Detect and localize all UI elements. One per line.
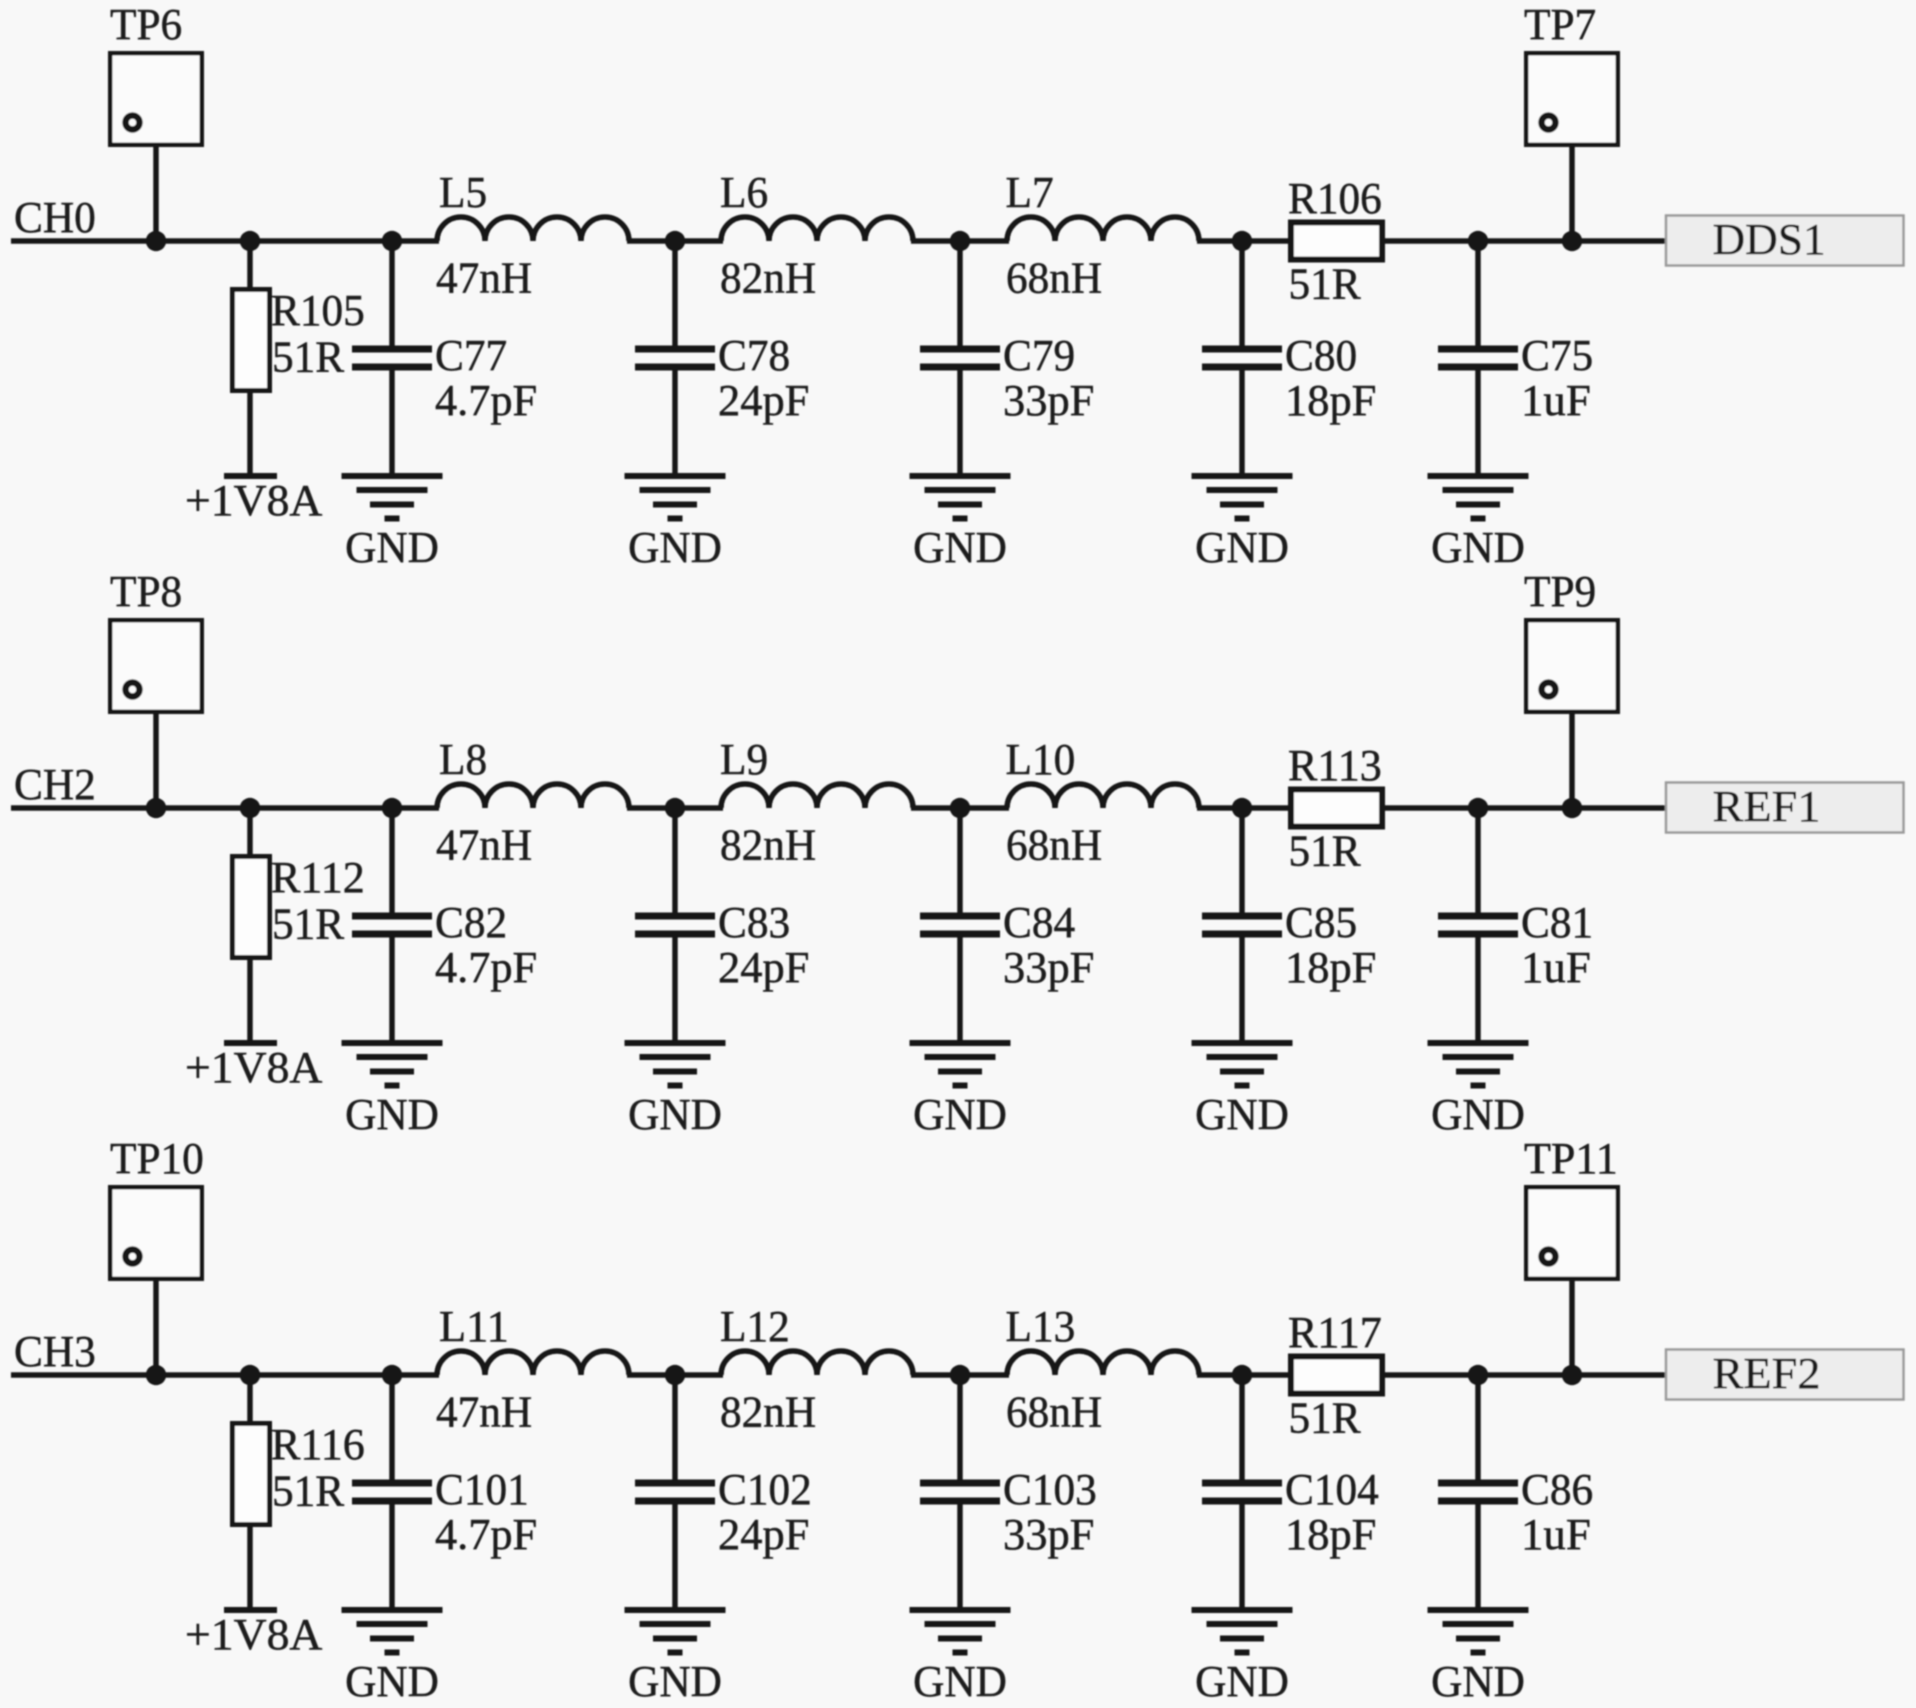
capacitor C77 [352,349,432,367]
svg-text:L13: L13 [1006,1301,1076,1351]
capacitor C79 [920,349,1000,367]
svg-text:TP6: TP6 [110,0,182,49]
svg-text:C103: C103 [1003,1464,1097,1514]
ground under C104 [1192,1610,1293,1653]
net label DDS1 [1666,214,1904,266]
wire net CH3 segment 3 [911,1372,1009,1378]
svg-text:4.7pF: 4.7pF [435,375,537,425]
svg-text:GND: GND [1195,1089,1289,1139]
node junction TP10 stub [146,1365,166,1385]
capacitor C86 [1438,1483,1518,1501]
inductor L12 [721,1351,913,1375]
wire C103 top [957,1375,963,1480]
wire C85 top [1239,808,1245,913]
svg-text:TP9: TP9 [1524,566,1596,616]
svg-text:C78: C78 [718,330,790,380]
node junction TP11 stub [1562,1365,1582,1385]
svg-text:L7: L7 [1006,167,1054,217]
resistor R117 [1291,1357,1382,1394]
inductor L11 [437,1351,629,1375]
svg-text:L9: L9 [720,734,768,784]
svg-text:82nH: 82nH [720,253,816,303]
svg-text:GND: GND [345,1089,439,1139]
svg-text:51R: 51R [272,332,345,382]
svg-text:L8: L8 [439,734,487,784]
wire C101 bottom [389,1505,395,1608]
node junction R112 [240,798,260,818]
wire C77 top [389,241,395,346]
capacitor C104 [1202,1483,1282,1501]
svg-text:GND: GND [345,522,439,572]
node junction TP9 stub [1562,798,1582,818]
wire C77 bottom [389,371,395,474]
svg-text:C82: C82 [435,897,507,947]
wire C82 top [389,808,395,913]
wire net CH2 segment 4 [1197,805,1291,811]
wire TP8 stub [153,714,159,808]
svg-text:DDS1: DDS1 [1713,214,1826,264]
svg-text:33pF: 33pF [1003,1509,1094,1559]
wire R105 bottom [247,393,253,473]
svg-text:1uF: 1uF [1521,942,1591,992]
capacitor C80 [1202,349,1282,367]
node junction C75 [1468,231,1488,251]
svg-text:1uF: 1uF [1521,375,1591,425]
ground under C79 [910,476,1011,519]
wire C80 bottom [1239,371,1245,474]
inductor L6 [721,217,913,241]
node junction C103 [950,1365,970,1385]
svg-text:R116: R116 [271,1419,365,1469]
node junction TP6 stub [146,231,166,251]
inductor L8 [437,784,629,808]
wire C102 top [672,1375,678,1480]
svg-text:51R: 51R [272,1466,345,1516]
wire C78 bottom [672,371,678,474]
wire C84 bottom [957,938,963,1041]
svg-text:GND: GND [628,522,722,572]
svg-text:C83: C83 [718,897,790,947]
wire C80 top [1239,241,1245,346]
wire C79 bottom [957,371,963,474]
svg-text:47nH: 47nH [436,820,532,870]
test point TP10 [110,1187,202,1279]
node junction C83 [665,798,685,818]
wire R116 top [247,1375,253,1421]
node junction C102 [665,1365,685,1385]
svg-text:REF2: REF2 [1713,1348,1821,1398]
svg-text:C75: C75 [1521,330,1593,380]
node junction C86 [1468,1365,1488,1385]
wire net CH3 segment 1 [11,1372,439,1378]
wire C82 bottom [389,938,395,1041]
svg-text:GND: GND [1431,1656,1525,1706]
svg-text:L12: L12 [720,1301,790,1351]
wire net CH2 segment 2 [627,805,723,811]
svg-text:C85: C85 [1285,897,1357,947]
svg-text:R117: R117 [1288,1307,1382,1357]
ground under C86 [1428,1610,1529,1653]
svg-text:+1V8A: +1V8A [185,1609,322,1659]
capacitor C102 [635,1483,715,1501]
svg-text:68nH: 68nH [1006,820,1102,870]
resistor R116 [233,1424,270,1525]
svg-text:82nH: 82nH [720,820,816,870]
node junction C78 [665,231,685,251]
svg-text:GND: GND [628,1089,722,1139]
wire C86 top [1475,1375,1481,1480]
capacitor C103 [920,1483,1000,1501]
test point TP11 [1526,1187,1618,1279]
svg-text:68nH: 68nH [1006,253,1102,303]
ground under C83 [625,1043,726,1086]
power +1V8A [224,1607,277,1613]
svg-text:51R: 51R [1289,259,1362,309]
wire R116 bottom [247,1527,253,1607]
svg-text:CH2: CH2 [14,759,96,809]
svg-text:+1V8A: +1V8A [185,475,322,525]
wire C85 bottom [1239,938,1245,1041]
capacitor C84 [920,916,1000,934]
svg-text:REF1: REF1 [1713,781,1821,831]
ground under C85 [1192,1043,1293,1086]
power +1V8A [224,1040,277,1046]
svg-text:C81: C81 [1521,897,1593,947]
wire TP10 stub [153,1281,159,1375]
svg-text:C104: C104 [1285,1464,1379,1514]
svg-text:GND: GND [1431,1089,1525,1139]
node junction R116 [240,1365,260,1385]
node junction C77 [382,231,402,251]
wire C79 top [957,241,963,346]
wire TP9 stub [1569,714,1575,808]
inductor L9 [721,784,913,808]
test point TP9 [1526,620,1618,712]
wire net CH0 segment 4 [1197,238,1291,244]
svg-text:4.7pF: 4.7pF [435,1509,537,1559]
wire net DDS1 segment 5 [1382,238,1670,244]
wire C101 top [389,1375,395,1480]
svg-text:GND: GND [345,1656,439,1706]
inductor L13 [1007,1351,1199,1375]
wire net CH0 segment 2 [627,238,723,244]
ground under C101 [342,1610,443,1653]
test point TP7 [1526,53,1618,145]
wire R105 top [247,241,253,287]
wire net REF1 segment 5 [1382,805,1670,811]
svg-text:CH0: CH0 [14,192,96,242]
ground under C75 [1428,476,1529,519]
svg-text:GND: GND [628,1656,722,1706]
net label REF1 [1666,781,1904,833]
svg-text:TP7: TP7 [1524,0,1596,49]
svg-text:L11: L11 [439,1301,509,1351]
svg-text:68nH: 68nH [1006,1387,1102,1437]
svg-text:C101: C101 [435,1464,529,1514]
inductor L7 [1007,217,1199,241]
svg-text:47nH: 47nH [436,1387,532,1437]
svg-text:TP10: TP10 [110,1133,204,1183]
capacitor C101 [352,1483,432,1501]
svg-text:L5: L5 [439,167,487,217]
wire net CH3 segment 4 [1197,1372,1291,1378]
svg-text:47nH: 47nH [436,253,532,303]
wire C83 bottom [672,938,678,1041]
wire net CH2 segment 3 [911,805,1009,811]
svg-text:18pF: 18pF [1285,375,1376,425]
ground under C81 [1428,1043,1529,1086]
node junction C81 [1468,798,1488,818]
svg-text:TP8: TP8 [110,566,182,616]
wire net REF2 segment 5 [1382,1372,1670,1378]
wire C81 bottom [1475,938,1481,1041]
svg-text:+1V8A: +1V8A [185,1042,322,1092]
wire C75 bottom [1475,371,1481,474]
node junction TP8 stub [146,798,166,818]
node junction C82 [382,798,402,818]
ground under C103 [910,1610,1011,1653]
node junction C101 [382,1365,402,1385]
svg-text:L6: L6 [720,167,768,217]
svg-text:18pF: 18pF [1285,942,1376,992]
wire R112 bottom [247,960,253,1040]
svg-text:GND: GND [913,1656,1007,1706]
test point TP6 [110,53,202,145]
svg-text:51R: 51R [1289,826,1362,876]
wire net CH3 segment 2 [627,1372,723,1378]
resistor R113 [1291,790,1382,827]
resistor R105 [233,290,270,391]
wire TP11 stub [1569,1281,1575,1375]
svg-text:R112: R112 [271,852,365,902]
node junction C79 [950,231,970,251]
svg-text:C77: C77 [435,330,507,380]
svg-text:C102: C102 [718,1464,812,1514]
wire C81 top [1475,808,1481,913]
wire C75 top [1475,241,1481,346]
svg-text:CH3: CH3 [14,1326,96,1376]
svg-text:33pF: 33pF [1003,375,1094,425]
ground under C84 [910,1043,1011,1086]
svg-text:18pF: 18pF [1285,1509,1376,1559]
capacitor C82 [352,916,432,934]
svg-text:C79: C79 [1003,330,1075,380]
node junction C84 [950,798,970,818]
svg-text:C80: C80 [1285,330,1357,380]
wire C84 top [957,808,963,913]
svg-text:GND: GND [1431,522,1525,572]
svg-text:51R: 51R [272,899,345,949]
wire C104 bottom [1239,1505,1245,1608]
wire C86 bottom [1475,1505,1481,1608]
svg-text:24pF: 24pF [718,1509,809,1559]
svg-text:4.7pF: 4.7pF [435,942,537,992]
resistor R112 [233,857,270,958]
net label REF2 [1666,1348,1904,1400]
wire C83 top [672,808,678,913]
svg-text:GND: GND [1195,1656,1289,1706]
wire TP6 stub [153,147,159,241]
svg-text:24pF: 24pF [718,942,809,992]
svg-text:51R: 51R [1289,1393,1362,1443]
wire net CH0 segment 3 [911,238,1009,244]
node junction R105 [240,231,260,251]
svg-text:1uF: 1uF [1521,1509,1591,1559]
wire net CH2 segment 1 [11,805,439,811]
svg-text:GND: GND [913,522,1007,572]
wire net CH0 segment 1 [11,238,439,244]
wire C103 bottom [957,1505,963,1608]
wire C78 top [672,241,678,346]
capacitor C83 [635,916,715,934]
svg-text:82nH: 82nH [720,1387,816,1437]
wire R112 top [247,808,253,854]
node junction C80 [1232,231,1252,251]
ground under C77 [342,476,443,519]
resistor R106 [1291,223,1382,260]
capacitor C81 [1438,916,1518,934]
capacitor C85 [1202,916,1282,934]
inductor L5 [437,217,629,241]
svg-text:C86: C86 [1521,1464,1593,1514]
node junction C85 [1232,798,1252,818]
power +1V8A [224,473,277,479]
svg-text:R105: R105 [271,285,365,335]
node junction TP7 stub [1562,231,1582,251]
ground under C102 [625,1610,726,1653]
svg-text:C84: C84 [1003,897,1075,947]
wire C104 top [1239,1375,1245,1480]
test point TP8 [110,620,202,712]
ground under C80 [1192,476,1293,519]
ground under C78 [625,476,726,519]
svg-text:TP11: TP11 [1524,1133,1618,1183]
svg-text:24pF: 24pF [718,375,809,425]
svg-text:33pF: 33pF [1003,942,1094,992]
wire TP7 stub [1569,147,1575,241]
svg-text:GND: GND [913,1089,1007,1139]
svg-text:GND: GND [1195,522,1289,572]
svg-text:R113: R113 [1288,740,1382,790]
node junction C104 [1232,1365,1252,1385]
ground under C82 [342,1043,443,1086]
svg-text:L10: L10 [1006,734,1076,784]
wire C102 bottom [672,1505,678,1608]
capacitor C78 [635,349,715,367]
inductor L10 [1007,784,1199,808]
svg-text:R106: R106 [1288,173,1382,223]
capacitor C75 [1438,349,1518,367]
